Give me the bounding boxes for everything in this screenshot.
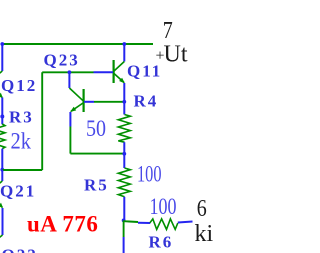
resistor R3 (cut at edge)	[0, 124, 5, 149]
node junction output	[122, 219, 126, 223]
transistor Q23 emitter diagonal	[71, 103, 83, 111]
transistor Q23 collector lead	[68, 72, 70, 88]
wire below output node	[123, 220, 125, 237]
transistor Q23 collector diagonal	[69, 88, 83, 101]
svg-text:Ut: Ut	[164, 42, 188, 68]
svg-text:R6: R6	[149, 233, 174, 252]
transistor Q22 collector diagonal (cut at bottom edge)	[0, 235, 3, 244]
R3 bottom lead	[1, 149, 3, 170]
svg-text:50: 50	[86, 116, 106, 141]
transistor Q21 emitter arrow	[0, 203, 3, 208]
resistor R6	[150, 219, 178, 230]
node junction top-left	[0, 42, 4, 46]
node junction Q23 collector	[68, 70, 72, 74]
wire from left rail to riser	[2, 169, 42, 171]
node junction left rail	[0, 168, 4, 172]
wire +Ut top rail	[2, 43, 153, 45]
wire riser	[41, 72, 43, 170]
resistor R5	[118, 168, 130, 197]
svg-text:ki: ki	[195, 221, 214, 247]
resistor R4 top lead	[123, 102, 125, 115]
svg-text:7: 7	[163, 18, 173, 44]
node junction Q11 emitter / R4	[122, 100, 126, 104]
transistor Q12 emitter arrow	[0, 93, 3, 98]
transistor Q21 emitter diagonal (cut at edge)	[0, 199, 3, 208]
transistor Q23 emitter arrow	[70, 107, 76, 112]
svg-text:Q21: Q21	[0, 182, 36, 201]
svg-text:R3: R3	[9, 108, 34, 127]
resistor R5 bottom lead	[123, 197, 125, 220]
transistor Q21 collector lead	[1, 170, 3, 181]
resistor R4	[118, 115, 130, 143]
transistor Q11 base bar	[112, 60, 114, 83]
transistor Q11 emitter diagonal	[114, 74, 124, 83]
svg-text:100: 100	[150, 194, 177, 219]
node junction Q11 collector on rail	[122, 42, 126, 46]
resistor R5 top lead	[123, 154, 125, 168]
svg-text:6: 6	[197, 196, 207, 222]
transistor Q12 emitter lead	[1, 98, 3, 125]
transistor Q11 collector lead	[123, 44, 125, 62]
wire across to R4/R5 node	[70, 153, 124, 155]
svg-text:uA 776: uA 776	[27, 212, 98, 237]
svg-text:Q23: Q23	[44, 51, 80, 70]
transistor Q23 base bar	[82, 89, 84, 112]
svg-text:Q11: Q11	[127, 62, 162, 81]
transistor Q23 emitter lead	[69, 112, 71, 127]
wire from output node to R6	[124, 220, 138, 223]
transistor Q12 collector diagonal (cut at edge)	[0, 71, 2, 80]
node junction on R3 top lead	[0, 115, 4, 119]
transistor Q11 emitter lead	[123, 83, 125, 102]
node junction R4/R5	[122, 152, 126, 156]
transistor Q12 collector lead	[1, 44, 3, 71]
svg-text:R5: R5	[84, 176, 109, 195]
resistor R6 right lead	[178, 222, 193, 223]
transistor Q11 base lead	[94, 71, 114, 73]
transistor Q21 collector diagonal (cut at edge)	[0, 181, 2, 190]
svg-text:Q12: Q12	[1, 76, 37, 95]
svg-text:100: 100	[137, 162, 162, 187]
Q21 emitter lead	[2, 208, 4, 235]
transistor Q11 emitter arrow	[119, 78, 125, 84]
transistor Q23 base lead	[84, 101, 94, 103]
resistor R6 left lead	[138, 222, 150, 224]
wire Q11 base net	[42, 71, 93, 73]
lead to Q22 (cut at bottom)	[123, 237, 125, 253]
wire Q23 base to Q11 emitter node	[94, 101, 124, 103]
svg-text:2k: 2k	[11, 129, 32, 154]
svg-text:Q22: Q22	[2, 246, 38, 253]
transistor Q12 emitter diagonal (cut at edge)	[0, 90, 2, 98]
svg-text:R4: R4	[134, 92, 159, 111]
transistor Q11 collector diagonal	[114, 62, 124, 72]
wire Q23 emitter down	[69, 127, 71, 154]
resistor R4 bottom lead	[123, 142, 125, 154]
